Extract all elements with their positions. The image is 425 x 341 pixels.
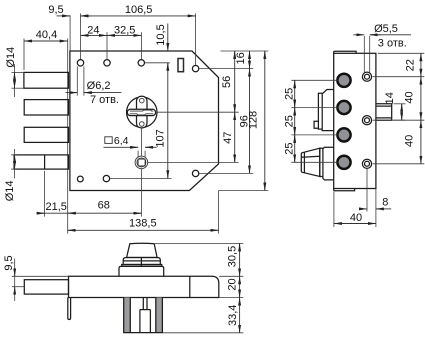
svg-text:9,5: 9,5 xyxy=(3,255,15,270)
faceplate top lip (side view) xyxy=(334,51,356,53)
knob base block (bottom view) xyxy=(119,266,164,276)
key profile upper line xyxy=(130,110,153,111)
svg-text:16: 16 xyxy=(235,52,247,64)
bolt centreline extension xyxy=(12,286,24,288)
dim 8 xyxy=(359,196,391,209)
extension line bottom hole row xyxy=(110,178,172,180)
dim 24 xyxy=(81,24,108,36)
label 6,4 xyxy=(114,135,129,147)
extension side top edge right xyxy=(378,52,424,54)
svg-text:138,5: 138,5 xyxy=(129,217,157,229)
extension ring2 right xyxy=(373,119,425,121)
dim 33,4 xyxy=(227,298,240,333)
svg-text:47: 47 xyxy=(222,132,234,144)
slab chamfer division line xyxy=(189,276,191,297)
cylinder boss plate (side view) xyxy=(322,90,334,131)
knob hub outer circle xyxy=(135,156,148,169)
dim Ø6,2 leader xyxy=(66,92,122,94)
key profile lower line xyxy=(130,114,153,115)
knob collar (bottom view) xyxy=(123,258,160,265)
extension line bolt1 left end xyxy=(23,39,25,71)
dim 9,5 (top) xyxy=(48,4,91,16)
faceplate tab (bottom view) xyxy=(68,298,71,320)
dim 10,5 xyxy=(155,24,168,52)
deadbolt 2 xyxy=(24,100,68,115)
knob split line xyxy=(140,258,142,267)
latch bolt (bottom, Ø14) xyxy=(14,155,68,169)
extension line hole column 80.5 xyxy=(80,13,82,59)
extension line hole column 107 xyxy=(106,32,108,59)
housing bottom extension right xyxy=(163,332,243,334)
svg-text:128: 128 xyxy=(248,111,260,129)
cylinder housing (bottom view) xyxy=(124,298,163,333)
svg-text:40: 40 xyxy=(403,91,415,103)
key cylinder outer circle xyxy=(127,97,157,127)
cylinder escutcheon plate xyxy=(137,96,148,128)
knob cone (bottom view) xyxy=(127,243,158,257)
centerline through cylinder and knob xyxy=(140,128,142,217)
front view lock body outline xyxy=(70,51,219,191)
dim 22 xyxy=(404,53,421,76)
extension line x=44.6 xyxy=(44,171,46,217)
svg-text:30,5: 30,5 xyxy=(226,246,238,267)
screw hole ring 2 xyxy=(362,116,371,125)
dim 32,5 xyxy=(107,24,141,36)
extension line x=218.5 below body xyxy=(218,191,220,234)
dim 47 xyxy=(222,112,235,162)
extension bottom chamfer hole right (y=173.4) xyxy=(199,172,253,174)
slab top edge extension left xyxy=(12,275,69,277)
label Ø6,2 xyxy=(87,80,111,92)
svg-text:8: 8 xyxy=(382,196,388,208)
dim 8 extensions xyxy=(367,169,376,227)
dim 21,5 and 68 line xyxy=(37,212,142,214)
hole diameter extension lines xyxy=(77,66,84,95)
screw hole ring 1 xyxy=(362,72,371,81)
svg-text:24: 24 xyxy=(87,24,99,36)
knob frustum (side view) xyxy=(301,148,320,176)
svg-text:20: 20 xyxy=(226,278,238,290)
bolt section circle 2 xyxy=(337,101,350,114)
svg-text:68: 68 xyxy=(98,200,110,212)
dim 25 (2) xyxy=(283,108,295,135)
deadbolt 1 (top, Ø14) xyxy=(24,72,69,88)
mounting hole (106.4,178.6) xyxy=(103,175,109,181)
svg-text:25: 25 xyxy=(283,142,295,154)
dim 16 xyxy=(235,51,249,69)
svg-text:9,5: 9,5 xyxy=(48,4,63,16)
svg-text:107: 107 xyxy=(155,129,167,147)
extension ring3 right xyxy=(373,163,425,165)
svg-text:40: 40 xyxy=(403,135,415,147)
dim Ø5,5 leader xyxy=(353,34,411,36)
cylinder boss front layer xyxy=(318,93,322,129)
label 68 xyxy=(98,200,110,212)
extension knob centre right xyxy=(148,161,239,163)
label square symbol xyxy=(105,137,112,144)
svg-text:25: 25 xyxy=(283,115,295,127)
dim Ø14 top bolt xyxy=(5,47,24,97)
svg-text:21,5: 21,5 xyxy=(45,201,66,213)
dim 106,5 xyxy=(81,4,196,16)
knob mid line xyxy=(301,156,320,157)
dim 96 xyxy=(239,69,251,174)
dim 40 (lower) xyxy=(403,120,421,164)
knob boss collar (side view) xyxy=(323,147,334,180)
side view body xyxy=(334,53,376,188)
extension bottom edge right xyxy=(219,190,269,192)
slab bottom extension right xyxy=(219,297,243,299)
svg-text:14: 14 xyxy=(384,92,396,104)
extension line top hole row right xyxy=(145,62,170,64)
cylinder screw top xyxy=(140,98,145,103)
knob top extension line xyxy=(155,242,244,244)
bolt section circle 4 xyxy=(337,156,350,169)
faceplate bottom lip (side view) xyxy=(334,189,355,191)
slab top extension right xyxy=(219,275,243,277)
screw hole ring 3 xyxy=(362,159,371,168)
bolt section circle 3 xyxy=(337,128,350,141)
slot opening near top right xyxy=(178,59,184,72)
svg-text:Ø5,5: Ø5,5 xyxy=(374,23,398,35)
dim 138,5 xyxy=(68,217,219,230)
dim Ø14 latch bolt xyxy=(4,149,17,201)
extension line chamfer hole column 195.6 xyxy=(195,13,197,65)
extension top edge right xyxy=(221,50,269,52)
knob hub inner circle xyxy=(137,158,146,167)
svg-text:33,4: 33,4 xyxy=(227,305,239,326)
deadbolt (bottom view) xyxy=(24,280,68,294)
mounting hole at bottom chamfer (195.6,173.4) xyxy=(192,170,198,176)
mounting hole (107,62.8) xyxy=(104,60,110,66)
dim 9,5 (bottom view) xyxy=(3,255,15,301)
strike tab (side view) xyxy=(376,104,392,120)
dim 14 extensions xyxy=(394,104,406,120)
mounting hole (141.3,62.8) xyxy=(138,60,144,66)
svg-text:6,4: 6,4 xyxy=(114,135,129,147)
mounting hole at top chamfer (195.6,68.6) xyxy=(192,65,198,71)
label 3 отв. xyxy=(378,37,407,49)
svg-text:3 отв.: 3 отв. xyxy=(378,37,407,49)
body slab (bottom view) xyxy=(69,276,219,297)
dim 128 xyxy=(248,51,265,191)
svg-text:106,5: 106,5 xyxy=(125,4,153,16)
mounting hole (80.3,179) xyxy=(77,176,83,182)
dim 14 xyxy=(384,92,402,120)
cylinder cam tab xyxy=(314,121,318,128)
label 7 отв. xyxy=(90,94,119,106)
knob base plate (bottom view) xyxy=(122,265,162,267)
svg-text:10,5: 10,5 xyxy=(155,24,167,45)
square hole 6,4 xyxy=(138,159,145,166)
extension ring1 right xyxy=(373,76,425,78)
svg-text:Ø6,2: Ø6,2 xyxy=(87,80,111,92)
svg-text:25: 25 xyxy=(283,88,295,100)
extension cylinder centre right xyxy=(157,111,238,113)
svg-text:56: 56 xyxy=(221,76,233,88)
dim 40,4 xyxy=(24,29,68,41)
knob collar inner line xyxy=(123,260,160,262)
dim 25 (1) xyxy=(283,80,295,107)
faceplate edge line (front view) xyxy=(67,39,69,234)
dim 20 xyxy=(226,276,239,297)
deadbolt 3 xyxy=(24,127,68,142)
svg-text:Ø14: Ø14 xyxy=(5,47,17,68)
dim 30,5 xyxy=(226,243,239,276)
svg-text:32,5: 32,5 xyxy=(114,24,135,36)
label Ø5,5 xyxy=(374,23,398,35)
dim 56 xyxy=(221,51,235,112)
dim 107 xyxy=(155,63,168,178)
square hole extension lines xyxy=(138,151,145,158)
dim 40 (upper) xyxy=(403,77,421,121)
extension line centre column 141.4 xyxy=(140,32,142,59)
keyhole slot xyxy=(127,109,155,115)
dim 25 (3) xyxy=(283,135,295,162)
svg-text:40,4: 40,4 xyxy=(36,29,57,41)
bolt section circle 1 xyxy=(337,74,350,87)
mounting hole (80.5,62.8) xyxy=(77,60,83,66)
dim 40 bottom extensions xyxy=(333,192,335,228)
svg-text:Ø14: Ø14 xyxy=(4,181,16,202)
svg-text:7 отв.: 7 отв. xyxy=(90,94,119,106)
extension chamfer hole right (y=68.6) xyxy=(199,68,253,70)
knob tip face line xyxy=(303,152,305,173)
dim 25 extension lines xyxy=(291,80,337,162)
dim 6,4 arrows xyxy=(104,146,157,148)
faceplate inner edge / 9,5 extension xyxy=(69,15,71,51)
label 21,5 xyxy=(45,201,66,213)
cylinder screw bottom xyxy=(140,122,145,127)
svg-text:40: 40 xyxy=(350,212,362,224)
dim Ø5,5 extension lines xyxy=(364,36,369,72)
dim 40 (width) xyxy=(334,212,376,224)
housing key channel xyxy=(140,298,151,333)
svg-text:22: 22 xyxy=(404,59,416,71)
knob boss ring layer xyxy=(320,148,323,176)
